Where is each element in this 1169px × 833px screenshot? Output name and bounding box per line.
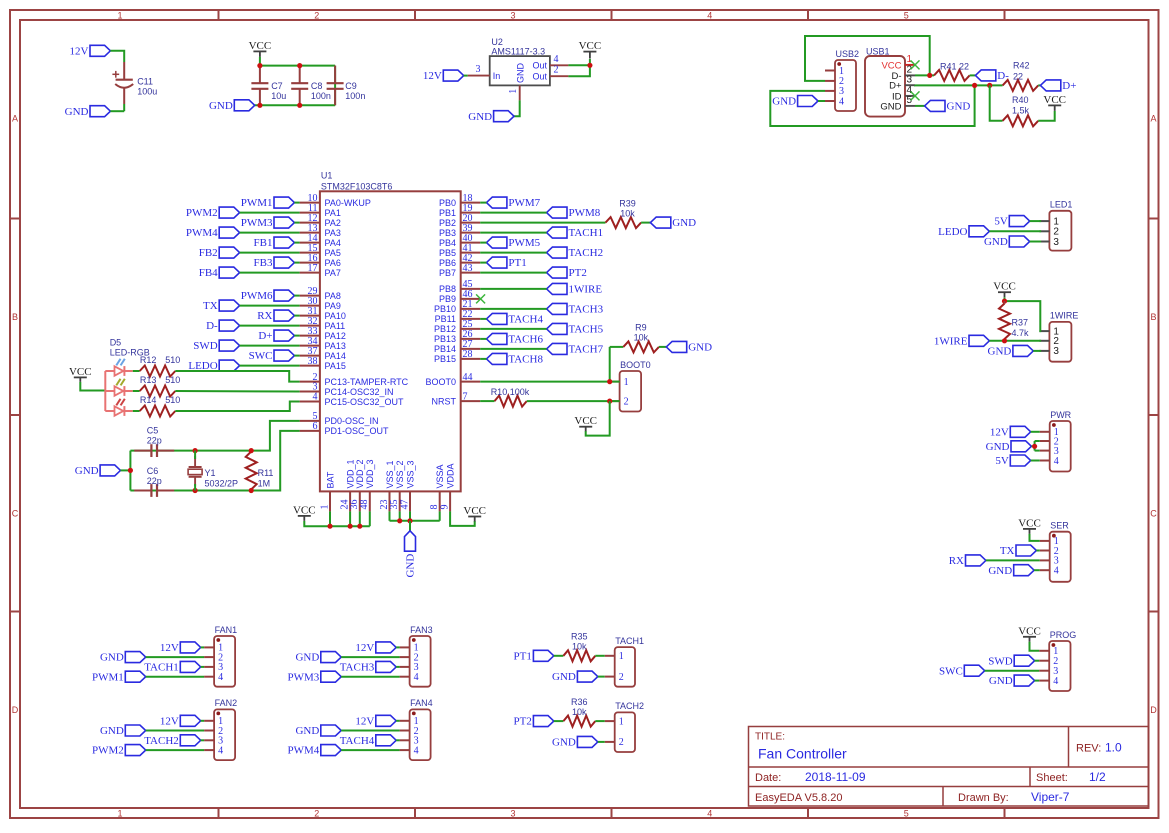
svg-text:USB1: USB1 xyxy=(866,46,890,56)
svg-text:1WIRE: 1WIRE xyxy=(934,335,968,347)
svg-text:PB10: PB10 xyxy=(434,304,456,314)
svg-text:R14: R14 xyxy=(140,395,157,405)
svg-text:PC13-TAMPER-RTC: PC13-TAMPER-RTC xyxy=(325,377,409,387)
svg-text:VDD_1: VDD_1 xyxy=(346,459,356,488)
svg-text:1WIRE: 1WIRE xyxy=(1050,311,1079,321)
svg-text:PB6: PB6 xyxy=(439,258,456,268)
svg-text:PA1: PA1 xyxy=(325,208,341,218)
svg-text:PT2: PT2 xyxy=(569,267,587,279)
svg-text:D+: D+ xyxy=(258,330,272,342)
svg-text:GND: GND xyxy=(295,725,319,737)
svg-text:Drawn By:: Drawn By: xyxy=(958,792,1009,804)
svg-text:C8: C8 xyxy=(311,81,323,91)
svg-text:RX: RX xyxy=(257,310,272,322)
svg-text:GND: GND xyxy=(100,652,124,664)
svg-text:1: 1 xyxy=(117,808,122,818)
svg-text:PB11: PB11 xyxy=(435,314,456,324)
svg-text:R39: R39 xyxy=(619,198,636,208)
svg-text:3: 3 xyxy=(510,10,515,20)
svg-text:D+: D+ xyxy=(1062,80,1076,92)
svg-text:PWM7: PWM7 xyxy=(508,197,540,209)
svg-text:12V: 12V xyxy=(423,70,442,82)
svg-text:PA9: PA9 xyxy=(325,301,341,311)
svg-text:4: 4 xyxy=(554,54,559,65)
svg-text:PA10: PA10 xyxy=(325,311,346,321)
svg-text:VCC: VCC xyxy=(1018,625,1041,637)
svg-text:PB13: PB13 xyxy=(434,334,456,344)
svg-text:4: 4 xyxy=(218,672,223,683)
svg-text:PC15-OSC32_OUT: PC15-OSC32_OUT xyxy=(325,397,405,407)
svg-text:TACH1: TACH1 xyxy=(144,662,179,674)
svg-text:7: 7 xyxy=(463,391,468,402)
svg-text:BOOT0: BOOT0 xyxy=(620,360,651,370)
svg-text:43: 43 xyxy=(463,263,473,274)
svg-text:12V: 12V xyxy=(70,45,89,57)
svg-text:PA11: PA11 xyxy=(325,321,346,331)
svg-text:PA14: PA14 xyxy=(325,351,346,361)
svg-text:B: B xyxy=(12,312,18,322)
svg-text:TACH3: TACH3 xyxy=(340,662,375,674)
svg-text:GND: GND xyxy=(552,671,576,683)
svg-text:C5: C5 xyxy=(147,426,159,436)
svg-text:R10 100k: R10 100k xyxy=(491,387,530,397)
svg-text:4: 4 xyxy=(218,745,223,756)
svg-text:PA2: PA2 xyxy=(325,218,341,228)
svg-text:PB5: PB5 xyxy=(439,248,456,258)
svg-text:VCC: VCC xyxy=(579,40,602,52)
svg-text:R40: R40 xyxy=(1012,95,1029,105)
svg-text:AMS1117-3.3: AMS1117-3.3 xyxy=(491,47,545,57)
svg-text:9: 9 xyxy=(440,505,451,510)
svg-text:Out: Out xyxy=(532,61,547,71)
svg-text:STM32F103C8T6: STM32F103C8T6 xyxy=(321,181,393,191)
svg-text:PA8: PA8 xyxy=(325,291,341,301)
svg-text:Viper-7: Viper-7 xyxy=(1031,790,1070,804)
svg-text:FAN4: FAN4 xyxy=(410,698,433,708)
svg-text:TACH4: TACH4 xyxy=(340,735,375,747)
svg-text:RX: RX xyxy=(949,555,964,567)
svg-text:PB1: PB1 xyxy=(439,208,456,218)
svg-text:PB15: PB15 xyxy=(434,354,456,364)
svg-text:PB12: PB12 xyxy=(434,324,456,334)
svg-text:100n: 100n xyxy=(345,91,365,101)
svg-text:TX: TX xyxy=(203,300,218,312)
svg-text:5: 5 xyxy=(904,808,909,818)
svg-text:SER: SER xyxy=(1050,521,1069,531)
svg-text:VSS_1: VSS_1 xyxy=(385,460,395,488)
svg-text:PWM3: PWM3 xyxy=(288,671,320,683)
svg-text:10k: 10k xyxy=(634,333,649,343)
svg-text:SWC: SWC xyxy=(939,665,963,677)
svg-text:2: 2 xyxy=(314,808,319,818)
svg-text:R13: R13 xyxy=(140,375,157,385)
svg-text:GND: GND xyxy=(468,111,492,123)
svg-text:PT1: PT1 xyxy=(514,650,532,662)
svg-text:2: 2 xyxy=(554,65,559,76)
svg-text:47: 47 xyxy=(399,500,410,510)
svg-text:PB4: PB4 xyxy=(439,238,456,248)
svg-text:10u: 10u xyxy=(271,91,286,101)
svg-text:VCC: VCC xyxy=(881,60,901,71)
svg-text:PWR: PWR xyxy=(1050,410,1071,420)
svg-text:5032/2P: 5032/2P xyxy=(205,479,239,489)
svg-text:TACH6: TACH6 xyxy=(508,334,543,346)
svg-text:FB3: FB3 xyxy=(254,257,273,269)
svg-text:BAT: BAT xyxy=(325,471,335,488)
svg-text:PD0-OSC_IN: PD0-OSC_IN xyxy=(325,416,379,426)
svg-text:4: 4 xyxy=(1054,456,1059,467)
svg-text:Y1: Y1 xyxy=(205,468,216,478)
svg-text:PB0: PB0 xyxy=(439,198,456,208)
svg-text:VSS_2: VSS_2 xyxy=(395,460,405,488)
svg-text:EasyEDA V5.8.20: EasyEDA V5.8.20 xyxy=(755,792,842,804)
svg-text:GND: GND xyxy=(515,63,525,84)
svg-text:R9: R9 xyxy=(635,323,647,333)
svg-text:12V: 12V xyxy=(355,642,374,654)
svg-text:Out: Out xyxy=(532,72,547,82)
svg-text:PA15: PA15 xyxy=(325,361,346,371)
svg-text:GND: GND xyxy=(988,346,1012,358)
svg-text:U2: U2 xyxy=(491,37,503,47)
svg-text:VCC: VCC xyxy=(1043,94,1066,106)
svg-text:VDD_2: VDD_2 xyxy=(355,459,365,488)
svg-text:PWM3: PWM3 xyxy=(241,217,273,229)
svg-text:NRST: NRST xyxy=(432,396,457,406)
svg-text:PB3: PB3 xyxy=(439,228,456,238)
svg-text:12V: 12V xyxy=(355,715,374,727)
svg-text:4: 4 xyxy=(707,10,712,20)
svg-text:PA12: PA12 xyxy=(325,331,346,341)
svg-text:4: 4 xyxy=(839,96,844,107)
svg-text:PA4: PA4 xyxy=(325,238,341,248)
svg-text:48: 48 xyxy=(359,500,370,510)
svg-text:4: 4 xyxy=(313,392,318,403)
svg-text:GND: GND xyxy=(552,737,576,749)
svg-text:PWM6: PWM6 xyxy=(241,290,273,302)
svg-text:Date:: Date: xyxy=(755,772,781,784)
svg-text:FB2: FB2 xyxy=(199,247,218,259)
svg-text:D: D xyxy=(12,705,19,715)
svg-text:10k: 10k xyxy=(572,707,587,717)
svg-text:VCC: VCC xyxy=(993,281,1016,293)
svg-text:TACH1: TACH1 xyxy=(569,227,604,239)
svg-text:GND: GND xyxy=(405,554,417,578)
svg-text:1: 1 xyxy=(619,716,624,727)
svg-text:1WIRE: 1WIRE xyxy=(569,284,603,296)
svg-text:TACH5: TACH5 xyxy=(569,324,604,336)
svg-text:4: 4 xyxy=(1054,566,1059,577)
svg-text:TACH8: TACH8 xyxy=(508,354,543,366)
svg-text:PB14: PB14 xyxy=(434,344,456,354)
svg-text:C7: C7 xyxy=(271,81,283,91)
svg-text:PROG: PROG xyxy=(1050,630,1077,640)
svg-text:VCC: VCC xyxy=(463,505,486,517)
svg-text:TITLE:: TITLE: xyxy=(755,732,785,743)
svg-text:1.0: 1.0 xyxy=(1105,741,1122,755)
svg-text:A: A xyxy=(1150,114,1156,124)
svg-text:PB2: PB2 xyxy=(439,218,456,228)
svg-text:1: 1 xyxy=(619,651,624,662)
svg-text:TACH2: TACH2 xyxy=(569,247,604,259)
svg-text:PWM2: PWM2 xyxy=(92,745,124,757)
svg-text:SWC: SWC xyxy=(249,350,273,362)
svg-text:1/2: 1/2 xyxy=(1089,770,1106,784)
svg-text:GND: GND xyxy=(989,675,1013,687)
svg-text:PD1-OSC_OUT: PD1-OSC_OUT xyxy=(325,426,390,436)
svg-text:C: C xyxy=(12,509,19,519)
svg-text:VCC: VCC xyxy=(69,366,92,378)
svg-text:PT1: PT1 xyxy=(508,257,526,269)
svg-text:FB4: FB4 xyxy=(199,267,218,279)
svg-text:D5: D5 xyxy=(110,338,122,348)
svg-text:1: 1 xyxy=(117,10,122,20)
svg-text:TACH3: TACH3 xyxy=(569,304,604,316)
svg-text:6: 6 xyxy=(313,421,318,432)
svg-text:510: 510 xyxy=(165,375,180,385)
svg-text:2: 2 xyxy=(314,10,319,20)
svg-text:22p: 22p xyxy=(147,436,162,446)
svg-text:2: 2 xyxy=(624,396,629,407)
svg-text:1: 1 xyxy=(319,505,330,510)
svg-text:PA3: PA3 xyxy=(325,228,341,238)
svg-text:BOOT0: BOOT0 xyxy=(425,377,456,387)
svg-text:GND: GND xyxy=(986,441,1010,453)
svg-text:VCC: VCC xyxy=(1018,517,1041,529)
svg-text:PA6: PA6 xyxy=(325,258,341,268)
svg-text:12V: 12V xyxy=(160,642,179,654)
svg-text:VSS_3: VSS_3 xyxy=(405,460,415,488)
svg-text:D-: D- xyxy=(206,320,218,332)
svg-text:PWM1: PWM1 xyxy=(92,671,124,683)
svg-text:PB8: PB8 xyxy=(439,284,456,294)
svg-text:PWM4: PWM4 xyxy=(288,745,320,757)
svg-text:C9: C9 xyxy=(345,81,357,91)
svg-text:GND: GND xyxy=(688,342,712,354)
svg-text:2018-11-09: 2018-11-09 xyxy=(805,770,866,784)
svg-text:1: 1 xyxy=(839,66,844,77)
svg-text:8: 8 xyxy=(429,505,440,510)
svg-text:PWM2: PWM2 xyxy=(186,207,218,219)
svg-text:SWD: SWD xyxy=(988,655,1013,667)
svg-text:R11: R11 xyxy=(258,468,274,478)
svg-text:FAN1: FAN1 xyxy=(215,625,238,635)
svg-text:510: 510 xyxy=(165,395,180,405)
svg-text:PC14-OSC32_IN: PC14-OSC32_IN xyxy=(325,387,394,397)
svg-text:C6: C6 xyxy=(147,466,159,476)
svg-text:TACH1: TACH1 xyxy=(615,636,644,646)
svg-text:38: 38 xyxy=(308,356,318,367)
svg-text:PWM5: PWM5 xyxy=(508,237,540,249)
svg-text:5: 5 xyxy=(907,95,913,106)
svg-text:PA13: PA13 xyxy=(325,341,346,351)
svg-text:PA7: PA7 xyxy=(325,268,341,278)
svg-text:2: 2 xyxy=(619,737,624,748)
svg-text:TACH2: TACH2 xyxy=(144,735,179,747)
svg-text:VDDA: VDDA xyxy=(446,463,456,488)
svg-text:44: 44 xyxy=(463,372,473,383)
svg-text:5V: 5V xyxy=(994,216,1008,228)
svg-text:VCC: VCC xyxy=(249,40,272,52)
svg-text:FB1: FB1 xyxy=(254,237,273,249)
svg-text:PWM1: PWM1 xyxy=(241,197,273,209)
svg-text:3: 3 xyxy=(1053,237,1059,248)
svg-text:1.5k: 1.5k xyxy=(1012,106,1030,116)
svg-text:FAN2: FAN2 xyxy=(215,698,238,708)
svg-text:GND: GND xyxy=(984,236,1008,248)
svg-text:C11: C11 xyxy=(137,77,153,87)
svg-text:GND: GND xyxy=(75,465,99,477)
svg-text:GND: GND xyxy=(672,217,696,229)
svg-text:REV:: REV: xyxy=(1076,743,1101,755)
svg-text:GND: GND xyxy=(65,106,89,118)
svg-text:GND: GND xyxy=(209,100,233,112)
svg-text:TX: TX xyxy=(1000,545,1015,557)
svg-text:PA5: PA5 xyxy=(325,248,341,258)
svg-text:1: 1 xyxy=(907,54,913,65)
svg-text:PB9: PB9 xyxy=(439,294,456,304)
svg-text:3: 3 xyxy=(907,75,913,86)
svg-text:B: B xyxy=(1150,312,1156,322)
svg-text:28: 28 xyxy=(463,349,473,360)
svg-text:In: In xyxy=(493,71,501,81)
svg-text:R36: R36 xyxy=(571,697,588,707)
svg-text:TACH7: TACH7 xyxy=(569,344,604,356)
svg-text:3: 3 xyxy=(510,808,515,818)
svg-text:GND: GND xyxy=(988,565,1012,577)
svg-text:1: 1 xyxy=(508,89,519,94)
svg-text:R35: R35 xyxy=(571,632,588,642)
svg-text:D: D xyxy=(1150,705,1157,715)
svg-text:GND: GND xyxy=(100,725,124,737)
svg-text:5V: 5V xyxy=(995,455,1009,467)
svg-text:TACH2: TACH2 xyxy=(615,701,644,711)
svg-text:R42: R42 xyxy=(1013,60,1030,70)
svg-text:VCC: VCC xyxy=(293,504,316,516)
svg-text:1: 1 xyxy=(624,377,629,388)
svg-text:12V: 12V xyxy=(990,426,1009,438)
svg-text:3: 3 xyxy=(476,64,481,75)
svg-text:TACH4: TACH4 xyxy=(508,314,543,326)
svg-text:100u: 100u xyxy=(137,87,157,97)
svg-text:PA0-WKUP: PA0-WKUP xyxy=(325,198,371,208)
svg-text:4: 4 xyxy=(707,808,712,818)
svg-text:10k: 10k xyxy=(572,642,587,652)
svg-text:D+: D+ xyxy=(889,81,902,92)
svg-text:Sheet:: Sheet: xyxy=(1036,772,1068,784)
svg-text:R37: R37 xyxy=(1012,318,1029,328)
svg-text:VDD_3: VDD_3 xyxy=(365,459,375,488)
svg-text:R12: R12 xyxy=(140,355,157,365)
svg-text:GND: GND xyxy=(880,101,901,112)
svg-text:10k: 10k xyxy=(620,208,635,218)
svg-text:Fan Controller: Fan Controller xyxy=(758,746,847,762)
svg-text:PB7: PB7 xyxy=(439,268,456,278)
svg-text:22p: 22p xyxy=(147,476,162,486)
svg-text:GND: GND xyxy=(295,652,319,664)
svg-text:USB2: USB2 xyxy=(836,49,860,59)
svg-text:510: 510 xyxy=(165,355,180,365)
svg-text:VCC: VCC xyxy=(574,415,597,427)
svg-text:3: 3 xyxy=(1053,346,1059,357)
svg-text:100n: 100n xyxy=(311,91,331,101)
svg-text:A: A xyxy=(12,114,18,124)
svg-text:4: 4 xyxy=(414,672,419,683)
svg-text:12V: 12V xyxy=(160,715,179,727)
svg-text:GND: GND xyxy=(947,101,971,113)
svg-text:PWM8: PWM8 xyxy=(569,207,601,219)
svg-text:1M: 1M xyxy=(258,479,271,489)
svg-text:5: 5 xyxy=(904,10,909,20)
svg-text:U1: U1 xyxy=(321,171,333,181)
svg-text:2: 2 xyxy=(619,672,624,683)
svg-text:VSSA: VSSA xyxy=(435,464,445,488)
svg-text:PWM4: PWM4 xyxy=(186,227,218,239)
svg-text:LED1: LED1 xyxy=(1050,200,1073,210)
svg-text:4: 4 xyxy=(414,745,419,756)
svg-text:22: 22 xyxy=(1013,71,1023,81)
svg-text:GND: GND xyxy=(772,96,796,108)
svg-text:PT2: PT2 xyxy=(514,716,532,728)
svg-text:4: 4 xyxy=(1053,676,1058,687)
svg-text:LEDO: LEDO xyxy=(938,226,967,238)
svg-text:C: C xyxy=(1150,509,1157,519)
svg-text:4.7k: 4.7k xyxy=(1012,328,1030,338)
svg-text:R41 22: R41 22 xyxy=(940,61,969,71)
svg-text:17: 17 xyxy=(308,263,318,274)
svg-text:FAN3: FAN3 xyxy=(410,625,433,635)
svg-text:SWD: SWD xyxy=(193,340,218,352)
